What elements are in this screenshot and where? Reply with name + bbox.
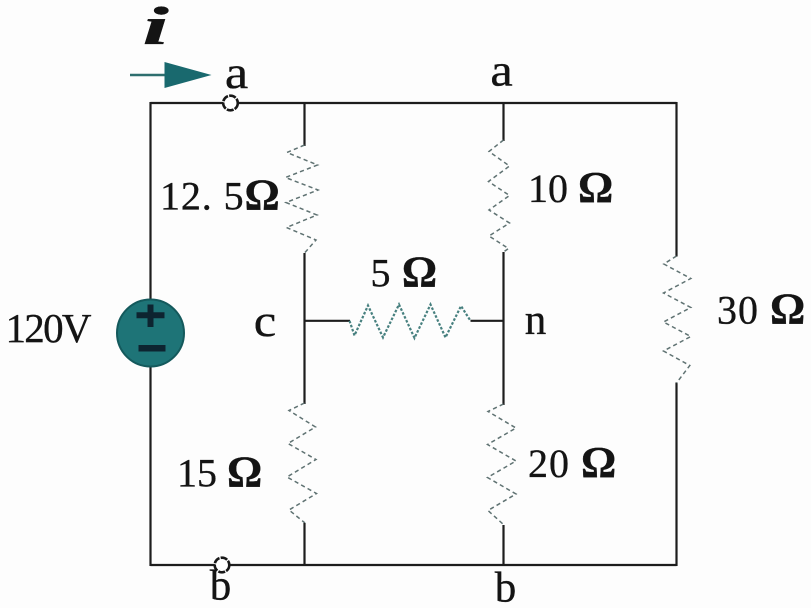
- wire branch c lower stub: [303, 523, 305, 566]
- label 30 ohm: [717, 285, 806, 334]
- svg-text:10 Ω: 10 Ω: [528, 163, 613, 212]
- wire 5ohm to n (right segment of c-n link): [471, 320, 504, 322]
- wire branch c upper stub: [303, 102, 305, 146]
- svg-text:12. 5Ω: 12. 5Ω: [160, 171, 281, 220]
- wire right lower: [675, 383, 677, 567]
- svg-text:b: b: [210, 563, 232, 608]
- label 5 ohm: [371, 248, 438, 297]
- svg-text:b: b: [495, 565, 517, 608]
- svg-text:i: i: [143, 0, 170, 56]
- wire left lower (source to node b): [149, 366, 151, 567]
- resistor 30ohm zigzag: [664, 256, 691, 383]
- svg-text:120V: 120V: [6, 305, 92, 351]
- svg-text:5 Ω: 5 Ω: [371, 248, 438, 297]
- wire branch n middle: [502, 252, 504, 405]
- resistor 20ohm zigzag: [488, 404, 517, 525]
- node a terminal (top, open circle): [223, 96, 238, 111]
- label node c: [254, 296, 276, 346]
- svg-text:a: a: [225, 47, 248, 99]
- label node a (left): [225, 47, 248, 99]
- label 12.5 ohm: [160, 171, 281, 220]
- wire top (a rail): [151, 102, 677, 104]
- label node b (middle): [495, 565, 517, 608]
- svg-text:n: n: [525, 297, 547, 344]
- node b terminal (bottom, open circle): [215, 558, 230, 573]
- label i (current): [143, 0, 170, 56]
- resistor 5ohm zigzag (horizontal, teal): [350, 305, 471, 339]
- wire branch c middle: [303, 253, 305, 404]
- label 20 ohm: [528, 438, 617, 487]
- label 120V: [6, 305, 92, 351]
- svg-text:30 Ω: 30 Ω: [717, 285, 806, 334]
- label node a (middle): [490, 46, 512, 96]
- wire right upper: [675, 102, 677, 257]
- wire branch n upper stub: [502, 102, 504, 141]
- svg-text:20 Ω: 20 Ω: [528, 438, 617, 487]
- resistor 15ohm zigzag: [287, 403, 317, 523]
- wire branch n lower stub: [502, 525, 504, 566]
- voltage source V 120V (teal circle): [117, 300, 184, 367]
- label node b (left): [210, 563, 232, 608]
- svg-text:a: a: [490, 46, 512, 96]
- wire bottom (b rail): [151, 564, 677, 566]
- current arrow i (teal): [130, 62, 212, 88]
- wire left upper (source to node a): [149, 102, 151, 301]
- resistor 12.5ohm zigzag: [286, 145, 319, 253]
- label node n: [525, 297, 547, 344]
- resistor 10ohm zigzag: [489, 140, 510, 252]
- svg-text:15 Ω: 15 Ω: [177, 448, 262, 497]
- wire c to 5ohm (left segment of c-n link): [305, 320, 351, 322]
- label 15 ohm: [177, 448, 262, 497]
- label 10 ohm: [528, 163, 613, 212]
- svg-text:c: c: [254, 296, 276, 346]
